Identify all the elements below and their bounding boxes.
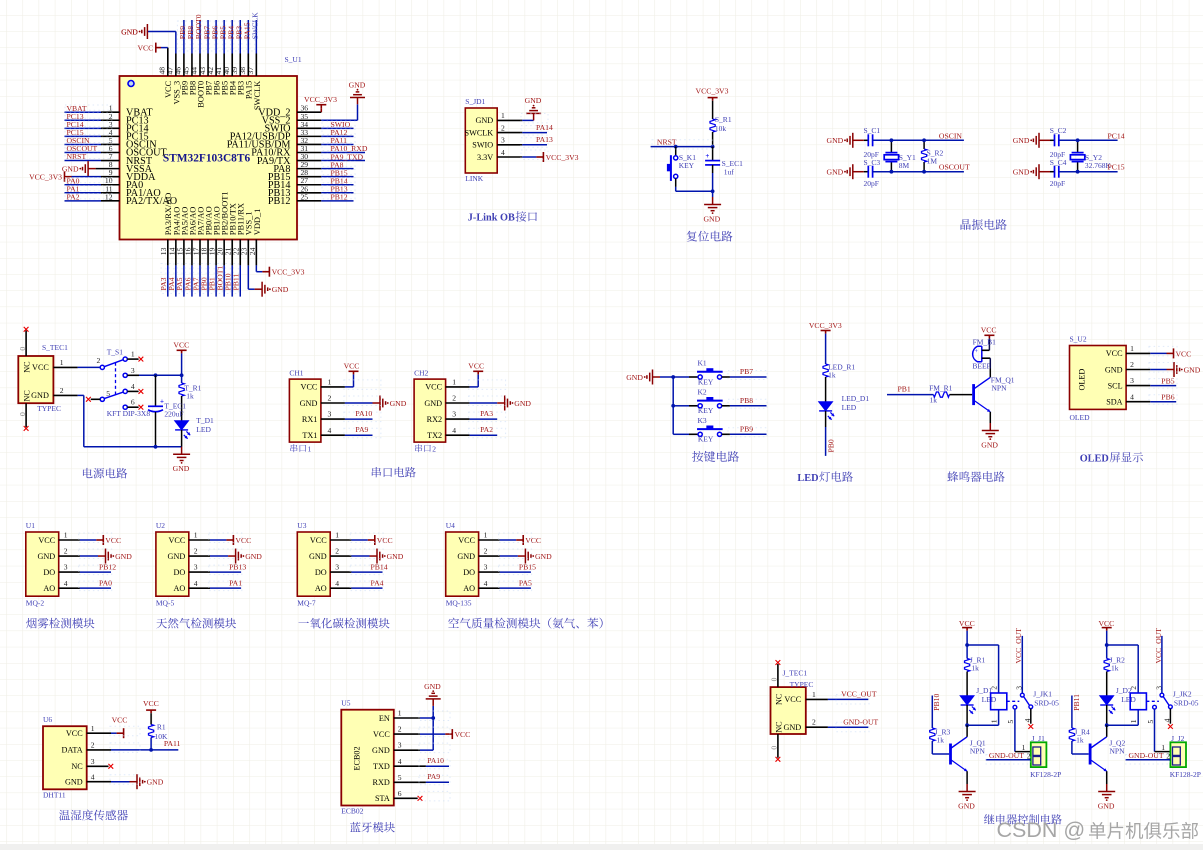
wire pin 19 net PB1 (215, 240, 217, 266)
crystal S_Y1 (884, 153, 898, 162)
GND rail vertical (U5) (432, 706, 434, 750)
svg-text:GND: GND (300, 399, 318, 408)
svg-text:STM32F103C8T6: STM32F103C8T6 (163, 152, 251, 164)
wire pin 33 net PA12 (297, 135, 321, 137)
svg-text:AO: AO (43, 584, 55, 593)
svg-text:KFT DIP-3X8: KFT DIP-3X8 (107, 409, 151, 418)
svg-text:VCC: VCC (301, 383, 318, 392)
svg-text:S_C2: S_C2 (1050, 126, 1067, 135)
svg-text:4: 4 (452, 426, 456, 435)
wire pin 4 net PC15 (65, 135, 102, 137)
wire U3 pin 4 net PA4 (330, 587, 351, 589)
svg-text:S_C4: S_C4 (1050, 158, 1067, 167)
terminal block J_J1 KF128-2P (1031, 742, 1047, 767)
svg-text:STA: STA (375, 794, 390, 803)
designator 串口 (290, 444, 306, 452)
module U3 MQ-7 body (297, 521, 339, 608)
svg-text:3: 3 (335, 563, 339, 572)
svg-text:ECB02: ECB02 (353, 746, 362, 770)
designator 串口 (415, 444, 431, 452)
pin 24 VDD_1 wire (255, 240, 257, 266)
svg-text:PC14: PC14 (1108, 131, 1125, 140)
svg-text:2: 2 (97, 356, 101, 365)
svg-text:GND: GND (981, 440, 998, 449)
wire to capacitor S_C2 (1039, 139, 1050, 141)
wire to capacitor S_C1 (853, 139, 864, 141)
svg-text:3: 3 (484, 563, 488, 572)
crystal pins (1077, 140, 1079, 152)
svg-text:2: 2 (328, 394, 332, 403)
svg-text:SCL: SCL (1108, 381, 1123, 390)
junction crystal (1076, 138, 1080, 142)
svg-text:2: 2 (91, 741, 95, 750)
svg-text:GND: GND (1013, 168, 1030, 177)
MCU U1 body STM32F103C8T6 (S_U1) (120, 55, 302, 240)
svg-text:U6: U6 (43, 715, 52, 724)
wire S_U2 pin 3 net PB5 (1126, 385, 1150, 387)
wire U6 pin 4 to GND (87, 781, 111, 783)
svg-text:KEY: KEY (679, 161, 695, 170)
wire LED_D1 net PB0 (825, 411, 827, 427)
ground at MCU pin 47 (142, 24, 148, 39)
svg-text:R1: R1 (157, 723, 166, 732)
svg-text:GND-OUT: GND-OUT (989, 751, 1024, 760)
wire J_R4 to base (1071, 741, 1073, 754)
wire to key K2 (673, 405, 689, 407)
wire U6 pin 1 to VCC (87, 732, 111, 734)
svg-text:2: 2 (1129, 686, 1138, 690)
svg-text:GND: GND (1184, 365, 1201, 374)
svg-text:LED: LED (982, 695, 997, 704)
resistor J_R2 1k (1106, 645, 1108, 659)
svg-text:BEEP: BEEP (972, 362, 990, 371)
ground (buzzer) (982, 423, 999, 437)
svg-text:GND: GND (168, 552, 186, 561)
svg-text:J_J2: J_J2 (1171, 734, 1185, 743)
ground at U3 pin 2 (370, 549, 383, 564)
junction EN (431, 716, 435, 720)
wire CH1 pin 2 to GND (321, 402, 345, 404)
wire pin 1 net VBAT (65, 111, 102, 113)
svg-text:KF128-2P: KF128-2P (1170, 770, 1201, 779)
junction T_EC1 top (154, 373, 158, 377)
wire CH1 pin 3 net PA10 (321, 418, 345, 420)
title reset circuit (687, 231, 733, 242)
svg-text:PB13: PB13 (229, 563, 246, 572)
wire U1 pin 2 to GND (59, 555, 80, 557)
power flag VCC at MCU pin 48 (156, 43, 161, 53)
svg-text:1k: 1k (971, 664, 979, 673)
svg-text:VDD_1: VDD_1 (253, 209, 262, 236)
svg-text:GND: GND (514, 399, 531, 408)
ground (key circuit) (647, 370, 660, 385)
ground at S_U2 pin 2 (1167, 362, 1180, 377)
svg-text:4: 4 (328, 426, 332, 435)
title key circuit (692, 451, 739, 462)
svg-text:+: + (705, 152, 709, 160)
svg-text:S_C3: S_C3 (864, 158, 881, 167)
T_S1 pin 3 wire to VCC rail (127, 374, 139, 376)
wire collector node to coil bottom (1107, 724, 1139, 726)
wire pin 5 net OSCIN (65, 143, 102, 145)
svg-text:20pF: 20pF (1050, 179, 1065, 188)
key rail vertical wire (672, 377, 674, 434)
svg-text:GND: GND (525, 96, 542, 105)
wire pin 44 net BOOT0 (199, 54, 201, 77)
ground (crystal circuit row 2) (847, 164, 853, 179)
capacitor S_C2 20pF (1055, 134, 1059, 146)
svg-text:1k: 1k (930, 396, 938, 405)
svg-text:T_D1: T_D1 (196, 416, 214, 425)
connector S_JD1 J-Link body (465, 97, 505, 183)
S_TEC1 top pin 0 (25, 330, 27, 356)
junction ground rail (154, 445, 158, 449)
wire VCC to R1 (150, 713, 152, 724)
wire VCC down (966, 631, 968, 645)
svg-text:GND: GND (475, 116, 493, 125)
wire pin 28 net PB15 (297, 176, 321, 178)
svg-text:NC: NC (775, 721, 784, 733)
wire PC15 (1059, 171, 1118, 173)
wire J_TEC1 pin 1 net VCC_OUT (806, 698, 828, 700)
wire contact 4 stub (1030, 709, 1032, 724)
svg-text:AO: AO (315, 584, 327, 593)
svg-text:VCC: VCC (455, 730, 471, 739)
svg-text:VCC: VCC (525, 536, 541, 545)
svg-text:PB14: PB14 (371, 563, 388, 572)
svg-text:J_TEC1: J_TEC1 (783, 668, 808, 677)
svg-text:VCC: VCC (1106, 349, 1123, 358)
wire pin 13 net PA3 (167, 240, 169, 266)
svg-text:2: 2 (484, 547, 488, 556)
wire U4 pin 2 to GND (479, 555, 500, 557)
wire pin 10 net PA0 (65, 184, 102, 186)
ground at U4 pin 2 (518, 549, 531, 564)
power flag VCC_3V3 at MCU pin 9 (65, 172, 72, 182)
wire pin 37 net SWCLK (255, 54, 257, 77)
wire U5 pin 2 VCC (394, 733, 420, 735)
T_S1 pin 5 stub (91, 398, 101, 400)
resistor J_R3 1k (930, 728, 935, 741)
svg-text:1uf: 1uf (724, 167, 735, 176)
svg-text:K3: K3 (698, 416, 707, 425)
pin 47 VSS_3 wire to GND (175, 54, 177, 77)
ground at MCU pin 8 (83, 161, 96, 176)
junction node NRST (674, 145, 678, 149)
svg-text:4: 4 (194, 579, 198, 588)
svg-text:GND: GND (349, 81, 366, 90)
wire pin 3 net PC14 (65, 127, 102, 129)
wire VCC_OUT to contact 3 (1021, 636, 1023, 693)
svg-text:GND: GND (827, 168, 844, 177)
svg-text:4: 4 (131, 382, 135, 391)
svg-text:CH2: CH2 (414, 368, 428, 377)
power flag VCC_3V3 at S_JD1 pin 4 (536, 152, 543, 162)
svg-text:2: 2 (1130, 360, 1134, 369)
svg-text:GND: GND (1013, 136, 1030, 145)
wire OSCOUT (873, 171, 964, 173)
wire CH2 pin 4 net PA2 (446, 434, 470, 436)
svg-text:20pF: 20pF (864, 179, 879, 188)
wire pin 29 net PA8 (297, 168, 321, 170)
svg-text:DHT11: DHT11 (43, 791, 66, 800)
svg-text:KEY: KEY (698, 435, 714, 444)
module U4 MQ-135 body (446, 521, 488, 608)
power flag VCC at U4 pin 1 (516, 535, 523, 545)
svg-text:GND: GND (1105, 365, 1123, 374)
svg-text:5: 5 (1146, 720, 1155, 724)
wire U1 pin 3 net PB12 (59, 571, 80, 573)
wire pin 43 net PB7 (207, 54, 209, 77)
wire U2 pin 3 net PB13 (189, 571, 210, 573)
svg-text:MQ-7: MQ-7 (297, 599, 316, 608)
wire to key K1 (673, 376, 689, 378)
svg-text:ECB02: ECB02 (341, 806, 363, 815)
svg-text:VCC: VCC (143, 699, 159, 708)
svg-text:PA1: PA1 (229, 579, 242, 588)
svg-text:NC: NC (775, 693, 784, 705)
wire emitter to ground (966, 771, 968, 784)
svg-text:3: 3 (194, 563, 198, 572)
svg-text:DO: DO (463, 568, 475, 577)
svg-text:VCC_3V3: VCC_3V3 (272, 268, 305, 277)
junction capacitor/key node (711, 189, 715, 193)
wire PB10 to J_R3 (931, 696, 933, 729)
svg-text:GND: GND (115, 552, 132, 561)
svg-text:PB9: PB9 (740, 424, 753, 433)
bottom scrollbar strip (0, 844, 1203, 850)
svg-text:KF128-2P: KF128-2P (1030, 770, 1061, 779)
resistor J_R1 1k (966, 645, 968, 659)
svg-text:2: 2 (812, 718, 816, 727)
svg-text:DO: DO (173, 568, 185, 577)
svg-text:VCC: VCC (784, 695, 801, 704)
svg-text:1k: 1k (828, 370, 836, 379)
svg-text:VCC: VCC (32, 363, 49, 372)
svg-text:GND: GND (783, 723, 801, 732)
svg-text:VCC: VCC (38, 536, 55, 545)
svg-text:PA5: PA5 (519, 579, 532, 588)
svg-text:MQ-2: MQ-2 (26, 599, 45, 608)
svg-text:GND: GND (245, 552, 262, 561)
svg-text:S_TEC1: S_TEC1 (42, 343, 68, 352)
svg-text:GND: GND (626, 373, 643, 382)
ground at U2 pin 2 (228, 549, 241, 564)
svg-text:GND: GND (390, 399, 407, 408)
svg-text:S_JD1: S_JD1 (465, 97, 485, 106)
ground at CH1 pin 2 (373, 396, 386, 411)
svg-text:GND: GND (827, 136, 844, 145)
key K3 KEY (697, 429, 723, 436)
svg-text:1k: 1k (1111, 664, 1119, 673)
svg-text:8M: 8M (899, 161, 910, 170)
pin 9 VDDA wire (72, 176, 102, 178)
wire T_D1 to ground rail (181, 430, 183, 447)
transistor J_Q2 NPN (1089, 744, 1092, 765)
svg-text:GND: GND (309, 552, 327, 561)
module U5 ECB02 body (341, 699, 402, 816)
wire J_R2 to LED J_D2 (1106, 672, 1108, 697)
svg-text:J_J1: J_J1 (1032, 734, 1046, 743)
capacitor T_EC1 220uF (155, 375, 157, 406)
wire R1 to DATA (150, 738, 152, 750)
LED J_D1 (961, 696, 974, 705)
pin 23 VSS_1 wire to GND (247, 240, 249, 266)
wire to capacitor S_C3 (853, 171, 864, 173)
svg-text:SRD-05: SRD-05 (1034, 699, 1059, 708)
title temperature humidity sensor (59, 810, 128, 821)
wire PC14 (1059, 139, 1118, 141)
title air quality detect module (448, 618, 602, 629)
wire U5 pin 4 TXD net PA10 (394, 765, 426, 767)
ground (relay J_JK1) (959, 784, 976, 798)
svg-text:PB11: PB11 (1072, 694, 1081, 711)
wire CH1 pin 1 to VCC (321, 386, 345, 388)
wire pin 7 net NRST (65, 160, 102, 162)
wire VCC_OUT to contact 3 (1161, 636, 1163, 693)
svg-text:K1: K1 (698, 359, 707, 368)
wire pin 26 net PB13 (297, 192, 321, 194)
svg-text:3: 3 (398, 741, 402, 750)
wire U3 pin 2 to GND (330, 555, 351, 557)
svg-text:SWCLK: SWCLK (465, 128, 494, 137)
wire pin 18 net PB0 (207, 240, 209, 266)
wire U4 pin 1 to VCC (479, 539, 500, 541)
svg-text:GND: GND (173, 464, 190, 473)
power flag VCC_3V3 at MCU pin 24 (262, 267, 269, 277)
svg-text:37: 37 (246, 67, 255, 75)
svg-text:VCC: VCC (468, 361, 484, 370)
svg-text:5: 5 (106, 389, 110, 398)
svg-text:GND: GND (147, 778, 164, 787)
svg-text:1M: 1M (927, 157, 938, 166)
svg-text:TYPEC: TYPEC (790, 680, 814, 689)
svg-text:6: 6 (398, 789, 402, 798)
pin 48 VCC wire (167, 48, 169, 76)
svg-text:LED: LED (1121, 695, 1136, 704)
svg-text:220uF: 220uF (164, 410, 183, 419)
svg-text:5: 5 (1006, 720, 1015, 724)
svg-text:GND: GND (703, 215, 720, 224)
svg-text:4: 4 (1130, 392, 1134, 401)
wire pin 2 net PC13 (65, 119, 102, 121)
svg-text:VCC: VCC (344, 361, 360, 370)
wire CH2 pin 1 to VCC (446, 386, 470, 388)
svg-text:2: 2 (501, 123, 505, 132)
LED LED_D1 (819, 402, 832, 411)
svg-text:PC15: PC15 (1108, 163, 1125, 172)
buzzer FM_B1 BEEP (973, 346, 982, 362)
svg-text:10K: 10K (155, 732, 169, 741)
wire S_TEC1 pin 1 to switch (53, 366, 77, 368)
svg-text:PA3: PA3 (480, 409, 493, 418)
svg-text:KEY: KEY (698, 377, 714, 386)
svg-text:PB12: PB12 (99, 563, 116, 572)
wire LED to collector junction (966, 705, 968, 725)
junction crystal (890, 138, 894, 142)
wire key K1 net PB7 (722, 376, 730, 378)
wire contact 5 to connector J_J1 pin 1 (1014, 709, 1016, 752)
wire U5 pin 5 RXD net PA9 (394, 781, 426, 783)
svg-text:RXD: RXD (373, 778, 390, 787)
module U2 MQ-5 body (156, 521, 198, 608)
title bluetooth module (350, 822, 395, 833)
svg-text:VCC: VCC (66, 729, 83, 738)
svg-text:4: 4 (64, 579, 68, 588)
svg-text:2: 2 (398, 725, 402, 734)
svg-text:1k: 1k (186, 391, 194, 400)
svg-text:1: 1 (328, 378, 332, 387)
ground (crystal circuit row 2) (1033, 164, 1039, 179)
resistor FM_R1 1k (933, 392, 949, 397)
svg-text:1k: 1k (1076, 735, 1084, 744)
relay J_JK1 SRD-05 coil (991, 693, 1007, 710)
wire contact 5 to connector J_J2 pin 1 (1154, 709, 1156, 752)
wire S_JD1 pin 4 to VCC_3V3 (497, 156, 522, 158)
title power circuit (83, 468, 127, 479)
wire pin 16 net PA6 (191, 240, 193, 266)
ground (crystal circuit row 1) (847, 133, 853, 148)
svg-text:J-Link OB: J-Link OB (468, 213, 515, 224)
svg-text:1: 1 (64, 531, 68, 540)
svg-text:U4: U4 (446, 521, 455, 530)
wire contact 4 stub (1169, 709, 1171, 724)
svg-text:LINK: LINK (465, 174, 483, 183)
wire pin 34 net SWIO (297, 127, 321, 129)
svg-text:PB15: PB15 (519, 563, 536, 572)
svg-text:2: 2 (335, 547, 339, 556)
svg-text:2: 2 (432, 445, 436, 454)
svg-text:1: 1 (501, 111, 505, 120)
svg-text:LED: LED (842, 403, 857, 412)
wire VCC_3V3 to LED_R1 (825, 334, 827, 364)
svg-text:6: 6 (131, 398, 135, 407)
J_TEC1 bottom pin 0 (777, 734, 779, 758)
ground at S_JD1 pin 1 (526, 108, 541, 121)
switch T_S1 KFT DIP-3X8 (97, 348, 151, 419)
svg-text:S_U1: S_U1 (285, 55, 302, 64)
svg-text:DO: DO (315, 568, 327, 577)
ground (crystal circuit row 1) (1033, 133, 1039, 148)
svg-text:PA10: PA10 (355, 409, 372, 418)
title CO detect module (298, 618, 389, 629)
wire S_U2 pin 1 to VCC (1126, 352, 1150, 354)
wire collector diag to node (966, 725, 968, 737)
svg-text:VCC: VCC (112, 715, 128, 724)
wire VCC down (1106, 631, 1108, 645)
svg-text:FM_R1: FM_R1 (929, 383, 953, 392)
svg-text:GND: GND (121, 27, 138, 36)
svg-text:PB12: PB12 (268, 196, 291, 207)
svg-text:10k: 10k (715, 124, 727, 133)
LED J_D2 (1100, 696, 1113, 705)
wire U5 pin 3 GND (394, 749, 420, 751)
svg-text:1k: 1k (937, 735, 945, 744)
svg-text:J_JK2: J_JK2 (1173, 689, 1192, 698)
svg-text:VCC: VCC (373, 730, 390, 739)
T_S1 pin 6 stub (127, 406, 138, 408)
svg-text:VCC_3V3: VCC_3V3 (304, 95, 337, 104)
svg-text:GND: GND (65, 778, 83, 787)
svg-text:1: 1 (1130, 344, 1134, 353)
svg-text:FM_B1: FM_B1 (973, 337, 997, 346)
svg-text:AO: AO (173, 584, 185, 593)
svg-text:VCC: VCC (168, 536, 185, 545)
svg-text:U3: U3 (297, 521, 306, 530)
wire key K2 net PB8 (722, 405, 730, 407)
svg-text:GND: GND (272, 285, 289, 294)
wire emitter to ground (989, 412, 991, 423)
